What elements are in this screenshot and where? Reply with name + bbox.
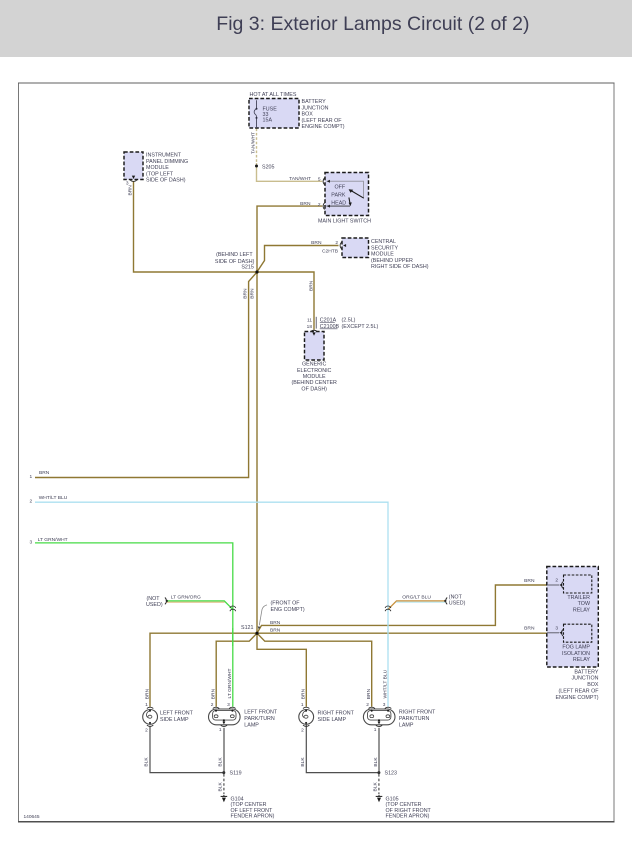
svg-text:2: 2 (145, 727, 148, 733)
svg-text:BATTERY: BATTERY (302, 99, 327, 105)
svg-text:ISOLATION: ISOLATION (562, 651, 590, 657)
svg-text:BRN: BRN (366, 688, 372, 699)
svg-text:ELECTRONIC: ELECTRONIC (297, 368, 332, 374)
svg-text:3: 3 (555, 625, 558, 631)
svg-text:HOT AT ALL TIMES: HOT AT ALL TIMES (250, 92, 297, 98)
svg-text:RIGHT SIDE OF DASH): RIGHT SIDE OF DASH) (371, 264, 429, 270)
svg-text:RIGHT FRONT: RIGHT FRONT (399, 710, 436, 716)
svg-text:FENDER APRON): FENDER APRON) (231, 814, 275, 820)
svg-text:SIDE LAMP: SIDE LAMP (318, 717, 347, 723)
svg-text:FOG LAMP: FOG LAMP (562, 644, 590, 650)
svg-text:BRN: BRN (211, 688, 217, 699)
svg-text:PARK/TURN: PARK/TURN (244, 716, 275, 722)
svg-text:BOX: BOX (587, 682, 599, 688)
svg-text:2: 2 (555, 578, 558, 584)
svg-text:BRN: BRN (524, 626, 535, 632)
svg-text:(2.5L): (2.5L) (342, 318, 356, 324)
svg-text:MODULE: MODULE (371, 252, 394, 258)
svg-text:(BEHIND UPPER: (BEHIND UPPER (371, 258, 413, 264)
svg-text:C2100B: C2100B (320, 324, 340, 330)
svg-text:BATTERY: BATTERY (574, 669, 599, 675)
svg-text:HEAD: HEAD (331, 201, 346, 207)
svg-text:BLK: BLK (300, 757, 306, 767)
svg-text:S205: S205 (262, 164, 275, 170)
svg-text:LT GRN/ORG: LT GRN/ORG (171, 595, 201, 601)
svg-text:BRN: BRN (308, 280, 314, 291)
svg-text:MODULE: MODULE (303, 374, 326, 380)
svg-text:BLK: BLK (218, 757, 224, 767)
svg-text:Fig 3: Exterior Lamps Circuit: Fig 3: Exterior Lamps Circuit (2 of 2) (216, 13, 529, 35)
svg-text:GENERIC: GENERIC (302, 362, 326, 368)
svg-text:PANEL DIMMING: PANEL DIMMING (146, 159, 188, 165)
svg-text:BRN: BRN (300, 201, 311, 207)
svg-text:BLK: BLK (144, 757, 150, 767)
svg-text:BRN: BRN (249, 288, 255, 299)
svg-text:2: 2 (301, 727, 304, 733)
svg-text:18: 18 (307, 324, 313, 330)
svg-text:USED): USED) (449, 600, 466, 606)
svg-text:BRN: BRN (270, 627, 281, 633)
svg-text:(EXCEPT 2.5L): (EXCEPT 2.5L) (342, 324, 379, 330)
svg-text:WHT/LT BLU: WHT/LT BLU (39, 495, 68, 501)
svg-text:BRN: BRN (301, 688, 307, 699)
svg-text:ENGINE COMPT): ENGINE COMPT) (302, 124, 345, 130)
svg-text:TOW: TOW (578, 601, 591, 607)
svg-text:LEFT FRONT: LEFT FRONT (160, 711, 194, 717)
svg-text:BRN: BRN (144, 688, 150, 699)
svg-text:RELAY: RELAY (573, 657, 591, 663)
svg-text:FENDER APRON): FENDER APRON) (386, 814, 430, 820)
svg-text:JUNCTION: JUNCTION (571, 676, 598, 682)
svg-text:(BEHIND LEFT: (BEHIND LEFT (216, 252, 253, 258)
svg-text:LT GRN/WHT: LT GRN/WHT (38, 537, 68, 543)
svg-text:1: 1 (374, 727, 377, 733)
svg-text:RELAY: RELAY (573, 608, 591, 614)
svg-text:BLK: BLK (217, 782, 223, 792)
svg-text:LAMP: LAMP (399, 722, 414, 728)
svg-text:BRN: BRN (242, 288, 248, 299)
svg-text:JUNCTION: JUNCTION (302, 105, 329, 111)
svg-text:BRN: BRN (270, 620, 281, 626)
svg-text:TRAILER: TRAILER (567, 595, 590, 601)
svg-text:(LEFT REAR OF: (LEFT REAR OF (302, 118, 343, 124)
svg-text:2: 2 (366, 702, 369, 708)
svg-text:1: 1 (145, 702, 148, 708)
svg-text:2: 2 (318, 202, 321, 208)
svg-text:S123: S123 (385, 770, 398, 776)
svg-text:S121: S121 (241, 625, 254, 631)
svg-text:BRN: BRN (311, 240, 322, 246)
svg-text:MODULE: MODULE (146, 165, 169, 171)
svg-text:(FRONT OF: (FRONT OF (271, 601, 301, 607)
svg-text:3: 3 (227, 702, 230, 708)
svg-text:ENG COMPT): ENG COMPT) (271, 607, 305, 613)
svg-text:LT GRN/WHT: LT GRN/WHT (227, 669, 233, 699)
svg-text:TAN/WHT: TAN/WHT (289, 176, 311, 182)
svg-text:ENGINE COMPT): ENGINE COMPT) (555, 695, 598, 701)
svg-text:TAN/WHT: TAN/WHT (250, 132, 256, 154)
svg-text:SIDE OF DASH): SIDE OF DASH) (146, 178, 186, 184)
svg-text:(BEHIND CENTER: (BEHIND CENTER (291, 380, 337, 386)
svg-text:BRN: BRN (39, 470, 50, 476)
svg-text:BLK: BLK (372, 782, 378, 792)
svg-text:CENTRAL: CENTRAL (371, 239, 396, 245)
svg-text:2: 2 (335, 240, 338, 246)
svg-text:1: 1 (219, 727, 222, 733)
svg-text:BRN: BRN (128, 185, 134, 196)
svg-text:2: 2 (211, 702, 214, 708)
svg-text:BOX: BOX (302, 112, 314, 118)
svg-text:(LEFT REAR OF: (LEFT REAR OF (559, 689, 600, 695)
svg-text:INSTRUMENT: INSTRUMENT (146, 153, 182, 159)
svg-text:LAMP: LAMP (244, 722, 259, 728)
svg-text:OF DASH): OF DASH) (301, 386, 327, 392)
svg-text:BRN: BRN (524, 578, 535, 584)
svg-text:S215: S215 (241, 265, 254, 271)
svg-text:S119: S119 (230, 770, 242, 776)
svg-text:WHT/LT BLU: WHT/LT BLU (382, 669, 388, 698)
svg-text:OFF: OFF (335, 184, 346, 190)
svg-text:MAIN LIGHT SWITCH: MAIN LIGHT SWITCH (318, 219, 371, 225)
svg-text:USED): USED) (146, 602, 163, 608)
svg-text:PARK/TURN: PARK/TURN (399, 716, 430, 722)
svg-text:(TOP LEFT: (TOP LEFT (146, 171, 174, 177)
svg-text:2: 2 (30, 499, 33, 505)
svg-text:3: 3 (30, 539, 33, 545)
svg-text:15A: 15A (263, 118, 273, 124)
svg-text:ORG/LT BLU: ORG/LT BLU (402, 595, 431, 601)
svg-text:RIGHT FRONT: RIGHT FRONT (318, 711, 355, 717)
svg-text:5: 5 (318, 177, 321, 183)
svg-text:SIDE LAMP: SIDE LAMP (160, 717, 189, 723)
svg-text:C201A: C201A (320, 318, 337, 324)
svg-text:1: 1 (30, 474, 33, 480)
svg-text:1: 1 (301, 702, 304, 708)
svg-text:C2HTB: C2HTB (322, 249, 338, 255)
svg-text:11: 11 (307, 318, 312, 324)
svg-text:PARK: PARK (331, 193, 346, 199)
svg-text:3: 3 (383, 702, 386, 708)
svg-text:140645: 140645 (24, 814, 40, 820)
svg-text:LEFT FRONT: LEFT FRONT (244, 710, 278, 716)
svg-text:SECURITY: SECURITY (371, 245, 398, 251)
svg-text:BLK: BLK (373, 757, 379, 767)
